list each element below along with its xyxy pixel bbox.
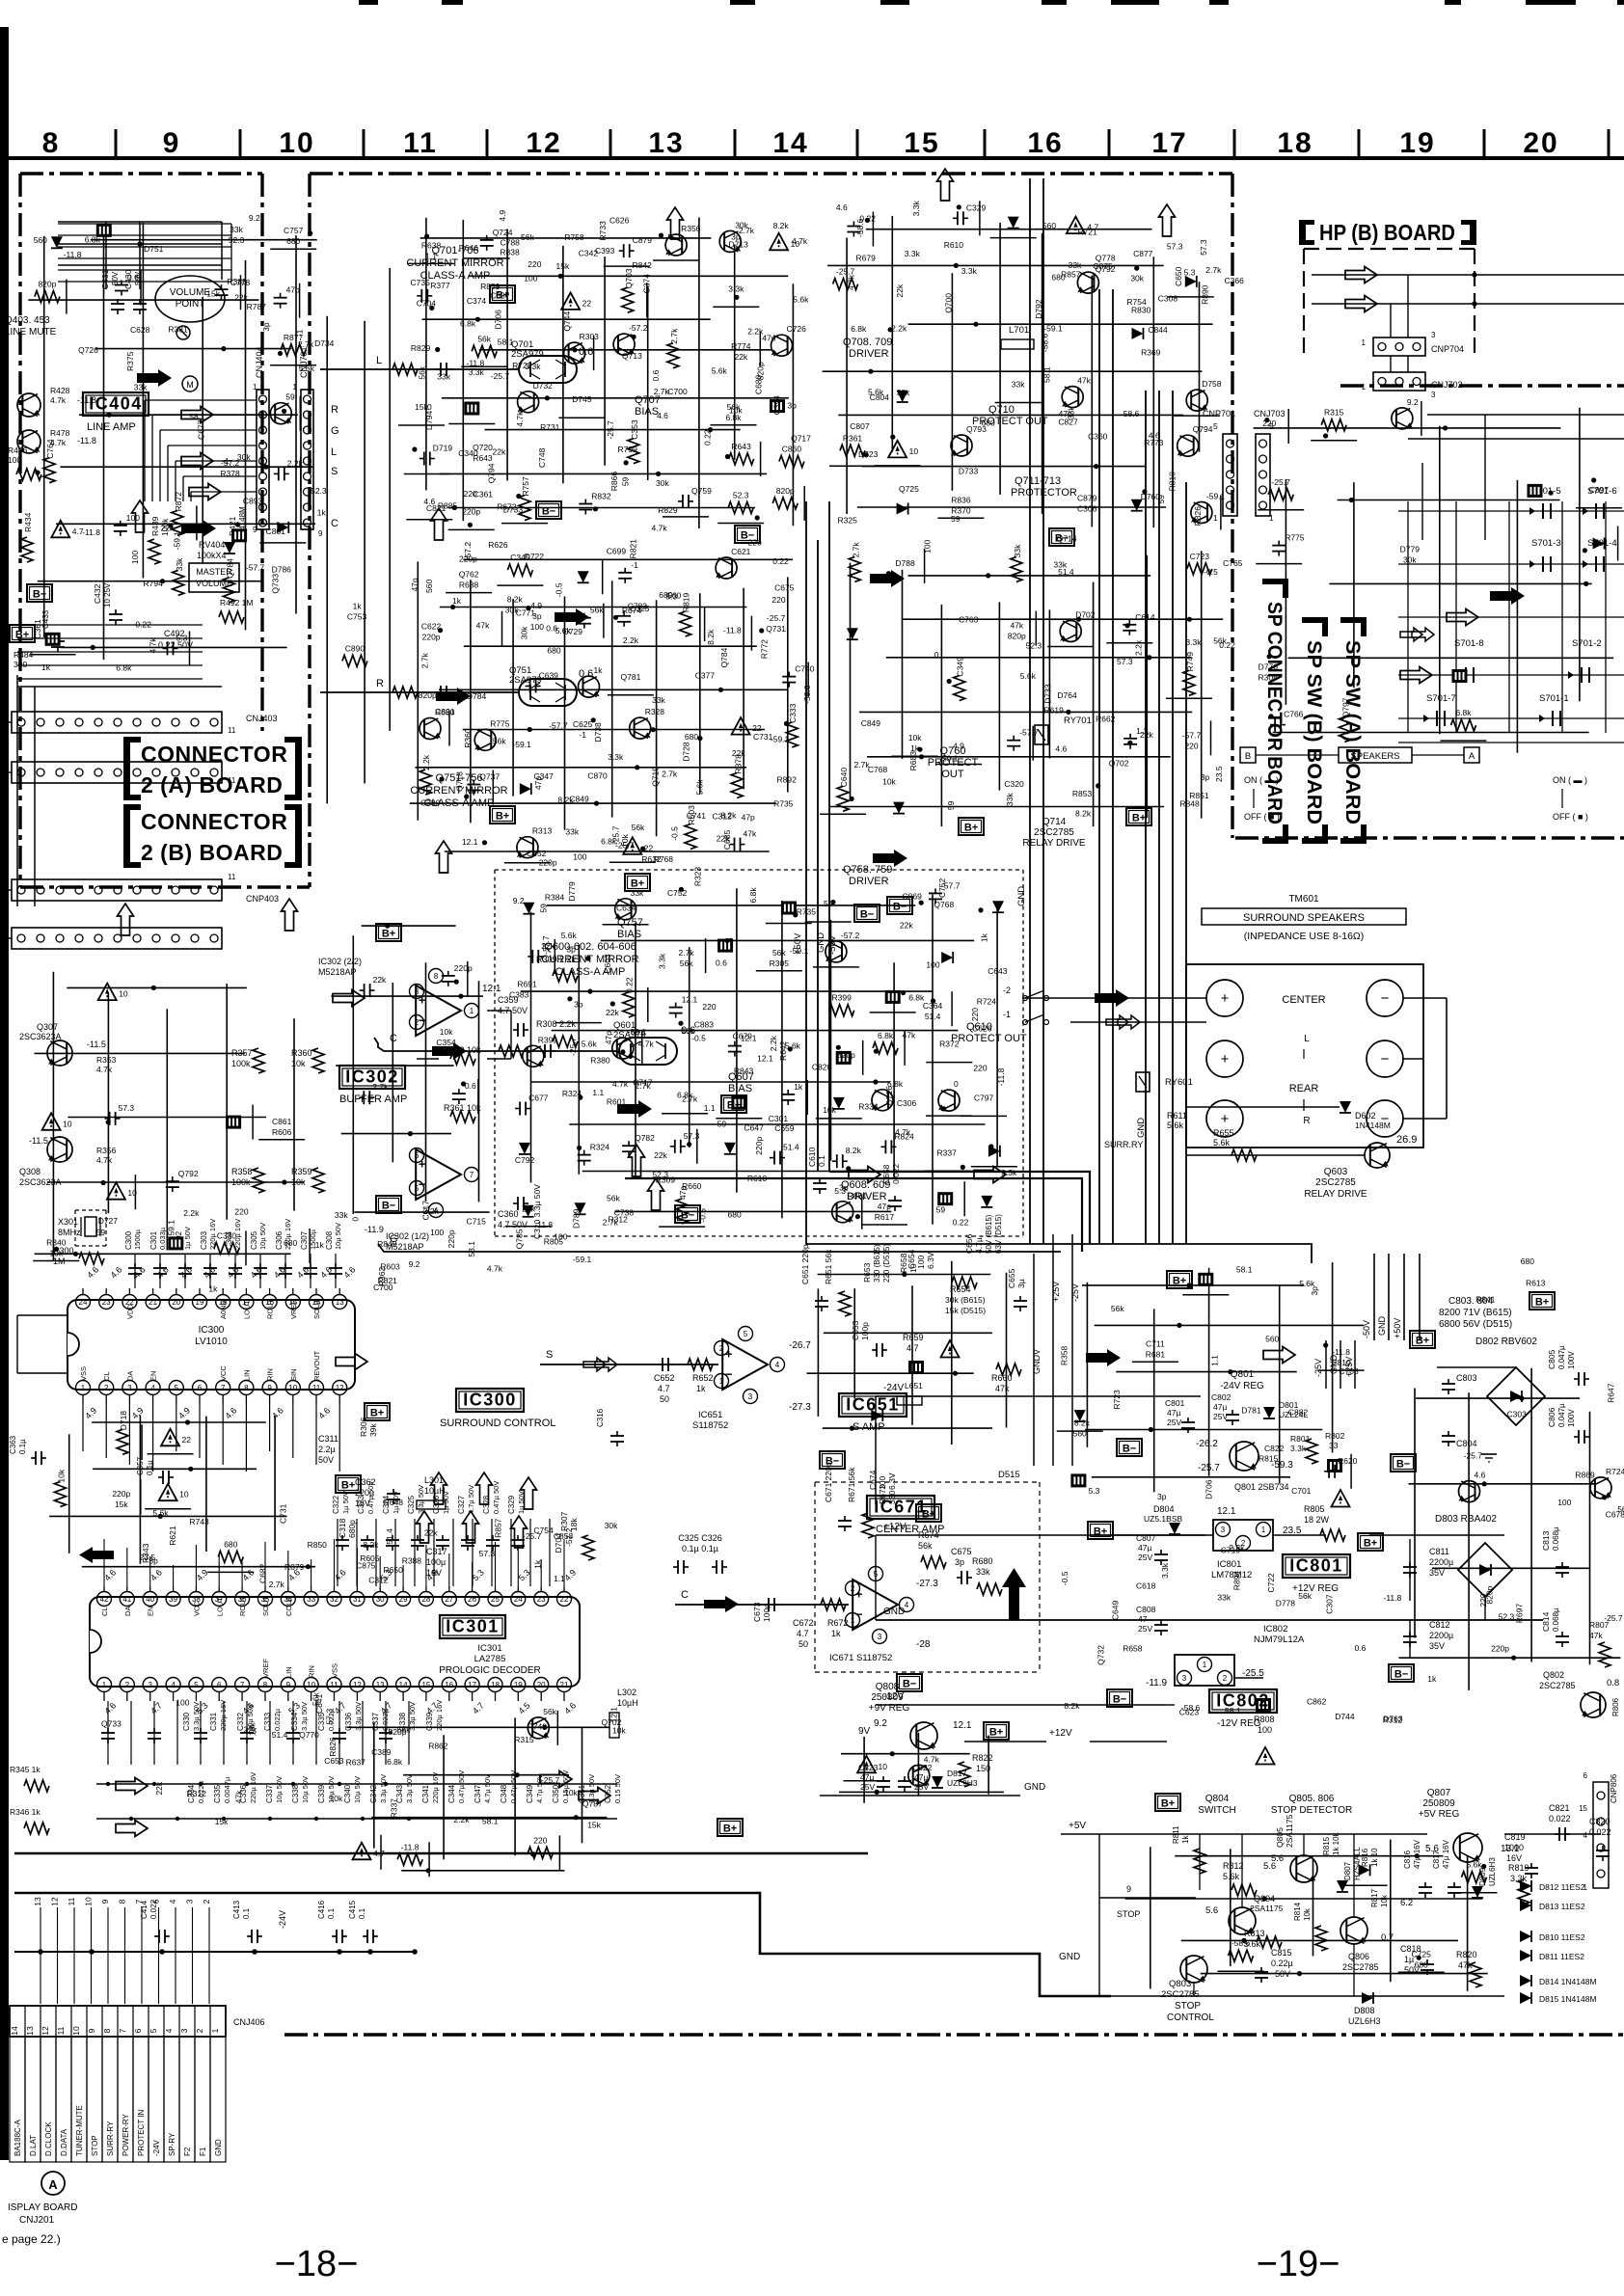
svg-text:220: 220: [464, 489, 477, 499]
svg-text:TM601: TM601: [1288, 894, 1319, 905]
svg-text:2: 2: [125, 1681, 130, 1689]
svg-text:3.3µ 50V: 3.3µ 50V: [300, 1702, 309, 1731]
ic301 top stubs: [103, 1539, 105, 1586]
svg-text:1µ 50V: 1µ 50V: [517, 1491, 526, 1514]
svg-text:R862: R862: [428, 1742, 448, 1751]
diode: [1359, 1864, 1370, 1876]
svg-text:SIN: SIN: [289, 1368, 298, 1381]
svg-text:220: 220: [533, 1835, 547, 1845]
diode: [1131, 500, 1143, 511]
svg-text:-26.2: -26.2: [1196, 1439, 1218, 1449]
wire: [555, 1022, 602, 1024]
wire: [1047, 646, 1094, 648]
svg-text:R377: R377: [430, 281, 450, 290]
warning mark: [51, 521, 69, 538]
capacitor: [526, 686, 530, 688]
IC301 bottom pins: [97, 1678, 112, 1692]
svg-text:26.9: 26.9: [1396, 1134, 1417, 1146]
svg-text:R749: R749: [528, 1722, 548, 1732]
svg-text:12.1: 12.1: [953, 1720, 972, 1731]
svg-text:Q802: Q802: [1543, 1670, 1564, 1680]
svg-text:Q308: Q308: [19, 1167, 41, 1176]
svg-text:220: 220: [973, 1064, 987, 1073]
svg-text:52.3: 52.3: [1026, 640, 1042, 650]
wire: [813, 966, 859, 968]
transistor: [1590, 1477, 1611, 1499]
svg-text:B−: B−: [741, 530, 754, 542]
svg-text:8: 8: [42, 127, 61, 159]
svg-text:R613: R613: [1526, 1279, 1546, 1288]
svg-text:C715: C715: [467, 1217, 487, 1227]
-24V rail: [876, 1395, 1201, 1397]
svg-text:-25.7: -25.7: [523, 1531, 542, 1541]
svg-text:680: 680: [224, 1539, 237, 1549]
wire: [713, 306, 759, 308]
svg-text:0.6: 0.6: [127, 273, 139, 283]
wire: [663, 516, 709, 518]
svg-text:0.022µ: 0.022µ: [273, 1708, 282, 1731]
svg-text:C822: C822: [1264, 1444, 1285, 1453]
svg-text:CNP701: CNP701: [1203, 409, 1235, 419]
svg-text:Q708. 709: Q708. 709: [843, 337, 892, 348]
svg-text:R620: R620: [1338, 1456, 1358, 1466]
svg-text:15k: 15k: [587, 1820, 601, 1829]
svg-text:22k: 22k: [424, 1527, 438, 1537]
svg-text:R358: R358: [231, 1167, 253, 1176]
svg-text:2.2k: 2.2k: [1229, 1543, 1245, 1553]
svg-text:C326: C326: [432, 1495, 441, 1514]
svg-text:47p: 47p: [742, 812, 755, 822]
svg-text:R496: R496: [8, 446, 28, 455]
resistor: [420, 770, 431, 795]
svg-text:0.22: 0.22: [625, 977, 635, 993]
bridge D802: [1487, 1367, 1545, 1425]
svg-text:50V (B615): 50V (B615): [985, 1214, 993, 1254]
svg-text:COUT: COUT: [284, 1595, 293, 1616]
svg-text:12: 12: [526, 127, 561, 159]
svg-text:12: 12: [353, 1681, 362, 1689]
center amp Q600 wires: [521, 888, 1003, 1225]
svg-text:C317: C317: [426, 1547, 447, 1556]
svg-text:BIAS: BIAS: [617, 929, 641, 940]
svg-text:2.2k: 2.2k: [747, 326, 764, 336]
svg-text:R826: R826: [328, 1737, 338, 1757]
wire: [189, 631, 191, 665]
svg-text:17: 17: [468, 1681, 476, 1689]
svg-text:56k: 56k: [918, 1541, 933, 1551]
svg-text:Q759: Q759: [691, 486, 712, 496]
driver extra value labels: [836, 201, 1244, 819]
warning mark: [732, 717, 750, 735]
svg-text:2.7k: 2.7k: [298, 339, 314, 349]
svg-text:22k: 22k: [654, 1150, 667, 1160]
HP right wires: [1427, 414, 1624, 416]
svg-text:22: 22: [182, 1435, 192, 1445]
svg-text:820p: 820p: [389, 1727, 407, 1737]
transistor Q404b: [17, 430, 41, 453]
R808 100: [1256, 1698, 1271, 1712]
svg-text:3: 3: [185, 1899, 195, 1904]
transistor: [615, 899, 636, 920]
wire: [556, 1711, 558, 1745]
svg-text:Q726: Q726: [78, 345, 98, 355]
svg-text:11: 11: [228, 726, 236, 735]
svg-text:30k: 30k: [605, 1521, 618, 1530]
svg-text:10: 10: [908, 1263, 918, 1273]
svg-text:C675: C675: [774, 583, 795, 593]
svg-text:R872: R872: [174, 492, 183, 512]
svg-text:Q714: Q714: [1042, 817, 1067, 827]
svg-text:2: 2: [415, 1018, 420, 1027]
svg-text:C306: C306: [897, 1098, 917, 1108]
B- box bridge: [1391, 1454, 1416, 1472]
svg-text:47k: 47k: [995, 1384, 1010, 1393]
wire: [803, 486, 805, 521]
svg-text:3p: 3p: [787, 401, 797, 411]
svg-text:B: B: [1245, 751, 1251, 762]
svg-text:10µ 50V: 10µ 50V: [275, 1776, 284, 1803]
resistor R434: [21, 537, 33, 562]
stop detector transistors: [1290, 1855, 1317, 1882]
svg-text:680: 680: [728, 1210, 742, 1220]
svg-text:Q785: Q785: [515, 1229, 525, 1249]
resistor pack: [781, 902, 797, 915]
svg-text:R: R: [376, 678, 384, 689]
svg-text:47k: 47k: [476, 621, 490, 631]
main board border right edge: [1231, 174, 1233, 838]
svg-text:9.2: 9.2: [1407, 397, 1419, 407]
ic301 below extra value labels: [101, 1692, 626, 1830]
svg-text:13: 13: [336, 1298, 344, 1307]
svg-text:C701: C701: [1291, 1486, 1312, 1496]
svg-text:10k: 10k: [823, 1105, 836, 1115]
wire: [558, 1835, 560, 1870]
wire: [446, 592, 492, 594]
svg-text:-11.8: -11.8: [467, 358, 485, 367]
svg-text:33k: 33k: [175, 557, 184, 571]
resistor pack: [885, 990, 901, 1004]
svg-text:R361 10k: R361 10k: [444, 1103, 481, 1113]
caps row above IC300: [134, 1254, 136, 1288]
wire: [806, 1080, 808, 1115]
svg-text:C862: C862: [1307, 1697, 1327, 1707]
ic300 caps extra value labels: [96, 1201, 635, 1294]
svg-text:B+: B+: [922, 1509, 935, 1521]
svg-text:Q784: Q784: [225, 558, 234, 579]
svg-text:B−: B−: [903, 1679, 916, 1690]
svg-text:R650: R650: [384, 1565, 404, 1575]
IC802 regulator: [1175, 1655, 1234, 1686]
svg-text:R733: R733: [598, 221, 608, 241]
svg-text:B−: B−: [542, 506, 555, 518]
svg-text:D779: D779: [1400, 544, 1421, 554]
solid arrow into line amp: [137, 369, 172, 387]
svg-text:59: 59: [538, 904, 548, 913]
svg-text:8200 71V (B615): 8200 71V (B615): [1439, 1308, 1512, 1318]
resistor pack: [96, 224, 112, 237]
svg-text:-57.2: -57.2: [841, 931, 860, 940]
IC671 opamp: [853, 1580, 898, 1630]
svg-text:4.7: 4.7: [658, 1384, 670, 1393]
svg-text:VOLUME: VOLUME: [170, 287, 211, 298]
left wires to connectors: [4, 721, 12, 723]
svg-text:25V: 25V: [860, 1782, 875, 1792]
svg-text:59: 59: [946, 800, 956, 810]
svg-text:CNP403: CNP403: [246, 894, 279, 904]
svg-text:1: 1: [1261, 1526, 1266, 1534]
svg-text:3p: 3p: [566, 944, 576, 954]
svg-text:2.7k: 2.7k: [682, 1094, 698, 1104]
svg-text:S701-3: S701-3: [1531, 538, 1561, 549]
capacitor: [105, 1118, 110, 1120]
svg-text:22k: 22k: [244, 1724, 257, 1734]
svg-text:R315: R315: [514, 1735, 534, 1744]
svg-text:B+: B+: [964, 823, 978, 834]
svg-text:10: 10: [909, 446, 919, 456]
wire: [1318, 1369, 1365, 1371]
svg-text:22k: 22k: [522, 1203, 535, 1213]
transistor: [1060, 621, 1081, 642]
Q804 transistor: [1229, 1907, 1256, 1934]
wire: [807, 662, 809, 697]
svg-text:R815: R815: [1259, 1453, 1279, 1463]
connector 2A board bracket label: [123, 737, 130, 800]
svg-text:D.LAT: D.LAT: [29, 2135, 38, 2156]
svg-text:R655: R655: [1213, 1128, 1234, 1138]
wire: [448, 712, 450, 746]
svg-text:C650: C650: [1174, 266, 1183, 286]
svg-text:-58.6: -58.6: [1232, 1938, 1251, 1948]
svg-text:6.3V: 6.3V: [887, 1472, 897, 1490]
svg-text:5.6k: 5.6k: [561, 931, 578, 940]
svg-text:52.3: 52.3: [311, 486, 327, 496]
svg-text:3µ: 3µ: [1016, 1279, 1026, 1288]
svg-text:12.1: 12.1: [757, 1054, 773, 1064]
svg-text:SURROUND SPEAKERS: SURROUND SPEAKERS: [1243, 912, 1365, 924]
wire: [66, 280, 68, 314]
IC802 label box: [1209, 1689, 1277, 1713]
svg-text:58.1: 58.1: [467, 1241, 476, 1257]
svg-text:C768: C768: [868, 765, 888, 774]
svg-text:18 2W: 18 2W: [1304, 1515, 1330, 1525]
svg-text:10k: 10k: [882, 776, 896, 786]
svg-text:B+: B+: [1364, 1538, 1377, 1550]
svg-text:15k: 15k: [206, 289, 220, 299]
svg-text:22: 22: [560, 1595, 569, 1604]
svg-text:820p: 820p: [38, 280, 56, 289]
svg-text:1: 1: [1203, 1661, 1207, 1669]
svg-text:D.DATA: D.DATA: [60, 2128, 68, 2156]
wire: [593, 336, 595, 370]
wire: [937, 517, 984, 519]
svg-text:C658: C658: [881, 1164, 891, 1184]
dual transistor Q601: [619, 1038, 677, 1065]
svg-text:R660: R660: [682, 1181, 702, 1191]
svg-text:5.6k: 5.6k: [582, 1040, 598, 1049]
svg-text:C312: C312: [713, 812, 733, 822]
svg-text:220: 220: [1184, 741, 1198, 750]
IC300 bottom pins: [76, 1381, 91, 1395]
svg-text:47k: 47k: [1010, 621, 1023, 631]
svg-text:D704: D704: [554, 1533, 563, 1553]
svg-text:C340: C340: [458, 448, 478, 458]
svg-text:-57.2: -57.2: [629, 323, 648, 333]
svg-text:R722: R722: [512, 361, 532, 370]
wire: [467, 961, 469, 996]
wire: [245, 1230, 247, 1265]
svg-text:-1: -1: [1003, 1010, 1011, 1019]
svg-text:47k: 47k: [1077, 376, 1091, 386]
svg-text:HP (B) BOARD: HP (B) BOARD: [1319, 220, 1455, 245]
svg-text:0.1µ: 0.1µ: [18, 1439, 27, 1454]
svg-text:CONNECTOR: CONNECTOR: [141, 742, 287, 767]
svg-text:R805: R805: [1304, 1504, 1325, 1514]
resistor: [833, 279, 858, 290]
svg-text:GND: GND: [1016, 886, 1027, 906]
svg-text:R621: R621: [168, 1526, 177, 1546]
svg-text:57.3: 57.3: [325, 1709, 335, 1725]
svg-text:R754: R754: [1126, 297, 1147, 307]
svg-text:-58.6: -58.6: [1121, 409, 1140, 419]
svg-text:4.7k: 4.7k: [515, 411, 525, 427]
transistor: [420, 718, 441, 740]
svg-text:R312: R312: [609, 1215, 629, 1225]
svg-text:D734: D734: [314, 338, 335, 348]
capacitor: [121, 281, 122, 285]
wire: [1256, 563, 1302, 565]
svg-text:R375: R375: [125, 351, 135, 371]
wire: [926, 1115, 972, 1117]
svg-text:2200µ: 2200µ: [1429, 1631, 1453, 1640]
svg-text:C679: C679: [733, 1032, 753, 1041]
svg-text:Q797: Q797: [1340, 697, 1350, 717]
svg-text:5.6k: 5.6k: [868, 388, 884, 397]
svg-text:5.6k: 5.6k: [694, 779, 704, 796]
svg-text:D781: D781: [1241, 1406, 1261, 1416]
svg-text:4.7µ 50V: 4.7µ 50V: [467, 1485, 475, 1514]
svg-text:C374: C374: [467, 296, 487, 306]
svg-text:R731: R731: [540, 422, 560, 432]
svg-text:56k: 56k: [680, 959, 693, 968]
diode: [523, 903, 534, 914]
svg-text:C875: C875: [356, 1561, 376, 1571]
wire: [1166, 697, 1212, 699]
q600 extra value labels: [509, 867, 1017, 1229]
transistor: [716, 557, 737, 579]
svg-text:DA: DA: [123, 1607, 132, 1616]
svg-text:58.1: 58.1: [498, 338, 514, 347]
buffer amp region wires: [331, 924, 489, 1214]
main L signal line: [320, 368, 519, 370]
svg-text:R638: R638: [459, 581, 479, 590]
IC651 opamp: [722, 1339, 768, 1390]
svg-text:58.1: 58.1: [1236, 1265, 1253, 1275]
svg-text:BUFFER AMP: BUFFER AMP: [339, 1094, 407, 1105]
svg-text:D745: D745: [572, 394, 592, 404]
IC651 label box: [839, 1393, 907, 1417]
svg-text:+: +: [1221, 1051, 1230, 1067]
svg-text:D786: D786: [272, 565, 292, 575]
svg-text:M: M: [186, 380, 194, 390]
svg-text:8: 8: [118, 1899, 127, 1904]
svg-text:C849: C849: [569, 794, 589, 803]
SP SW (A) BOARD vertical label: [1340, 617, 1366, 623]
capacitor: [473, 780, 474, 785]
svg-text:R735: R735: [797, 907, 817, 917]
svg-text:1.1: 1.1: [425, 251, 437, 260]
svg-text:+12V: +12V: [1049, 1728, 1072, 1739]
svg-text:3.3k: 3.3k: [911, 201, 921, 217]
svg-text:S701-7: S701-7: [1426, 693, 1456, 704]
svg-text:5.6k: 5.6k: [712, 365, 728, 375]
svg-text:6.8k: 6.8k: [1455, 708, 1472, 717]
wire: [766, 923, 812, 925]
capacitor: [678, 500, 683, 502]
svg-text:0.1: 0.1: [358, 1907, 366, 1919]
capacitor: [675, 1003, 677, 1008]
resistor pack: [226, 1116, 241, 1129]
svg-text:100: 100: [530, 622, 544, 632]
svg-text:-25.7: -25.7: [1604, 1613, 1623, 1623]
svg-text:10k: 10k: [330, 1794, 343, 1803]
connector CNP403 strip: [12, 879, 222, 901]
diode: [1132, 328, 1144, 339]
connector row2: [12, 762, 222, 783]
svg-text:C327: C327: [457, 1495, 466, 1514]
wire: [829, 465, 876, 467]
wires top-left input: [105, 222, 107, 289]
resistor R439 100k: [149, 539, 160, 564]
svg-text:-2: -2: [1003, 986, 1011, 995]
svg-text:31: 31: [353, 1595, 362, 1604]
Q803 stop control: [1180, 1956, 1207, 1983]
svg-text:15: 15: [421, 1681, 430, 1689]
svg-text:SP-RY: SP-RY: [168, 2132, 176, 2156]
svg-text:C653: C653: [324, 1756, 344, 1766]
svg-text:R340: R340: [46, 1238, 67, 1248]
svg-text:10µ 50V: 10µ 50V: [334, 1223, 342, 1250]
wire: [935, 764, 982, 766]
svg-text:9.2: 9.2: [874, 1718, 887, 1729]
diode list D810 D811: [1520, 1931, 1531, 1942]
svg-text:-11.8: -11.8: [996, 1067, 1006, 1086]
svg-text:C752: C752: [667, 888, 688, 898]
svg-text:-59.1: -59.1: [628, 1027, 647, 1037]
svg-text:6: 6: [217, 1681, 222, 1689]
svg-text:63V (D515): 63V (D515): [994, 1214, 1003, 1254]
resistor: [218, 1551, 243, 1562]
svg-text:220: 220: [771, 595, 785, 605]
svg-text:D817: D817: [947, 1769, 967, 1778]
resistor: [954, 676, 965, 701]
svg-text:1: 1: [851, 1616, 855, 1625]
svg-text:Q762: Q762: [459, 570, 479, 580]
svg-text:R334: R334: [858, 1102, 879, 1112]
svg-text:9: 9: [267, 1384, 272, 1392]
svg-text:3: 3: [1431, 331, 1436, 339]
svg-text:12: 12: [41, 2026, 50, 2036]
svg-text:Q713: Q713: [622, 351, 642, 361]
svg-text:C308: C308: [1158, 293, 1178, 303]
svg-text:D515: D515: [998, 1470, 1020, 1480]
svg-text:560: 560: [34, 235, 47, 245]
svg-text:33k: 33k: [1069, 260, 1082, 270]
svg-text:C416: C416: [317, 1900, 326, 1919]
svg-text:-59.1: -59.1: [771, 735, 790, 744]
svg-text:+9V REG: +9V REG: [869, 1703, 910, 1714]
svg-text:47p: 47p: [533, 776, 543, 790]
svg-text:C301: C301: [769, 1114, 789, 1123]
